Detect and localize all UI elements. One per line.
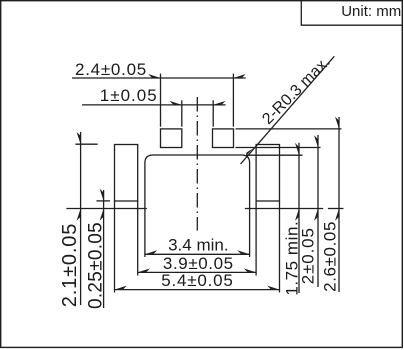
svg-text:3.4 min.: 3.4 min. [168, 236, 228, 255]
svg-text:1±0.05: 1±0.05 [100, 86, 158, 105]
svg-text:2±0.05: 2±0.05 [298, 227, 317, 284]
svg-text:5.4±0.05: 5.4±0.05 [161, 271, 233, 290]
svg-text:2.6±0.05: 2.6±0.05 [320, 221, 339, 292]
svg-text:Unit: mm: Unit: mm [341, 3, 401, 20]
svg-text:2.4±0.05: 2.4±0.05 [75, 60, 147, 79]
svg-text:2.1±0.05: 2.1±0.05 [59, 223, 81, 308]
svg-text:0.25±0.05: 0.25±0.05 [85, 222, 106, 309]
